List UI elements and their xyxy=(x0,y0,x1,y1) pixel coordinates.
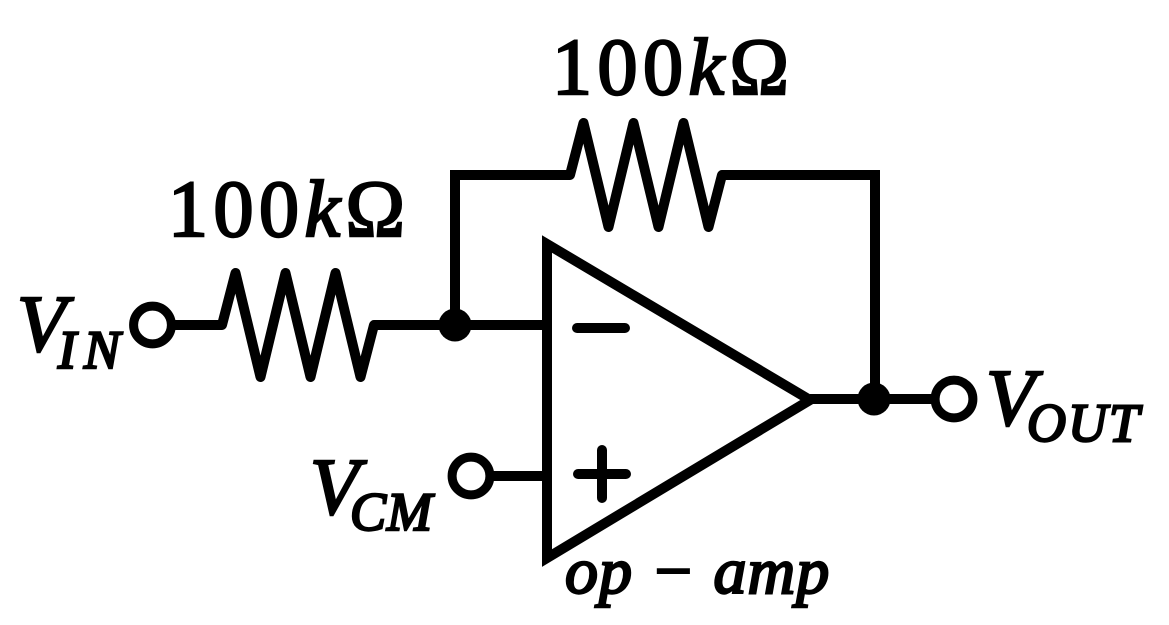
svg-text:op − amp: op − amp xyxy=(565,535,830,608)
V_CM terminal circle xyxy=(452,457,490,495)
svg-text:100kΩ: 100kΩ xyxy=(168,166,410,254)
op-amp inverting input minus sign xyxy=(577,323,625,333)
output node junction dot xyxy=(858,383,891,416)
op-amp non-inverting input plus sign xyxy=(578,450,626,498)
wire W4: feedback top-left horizontal to R2 xyxy=(450,170,570,180)
wire W6: right vertical down to output node xyxy=(870,170,880,399)
resistor R2 100k (feedback resistor) xyxy=(570,123,722,227)
svg-text:CM: CM xyxy=(350,482,435,542)
svg-text:100kΩ: 100kΩ xyxy=(552,24,794,112)
wire W3: node A up to feedback branch xyxy=(450,175,460,332)
V_IN terminal circle xyxy=(134,306,172,344)
svg-text:OUT: OUT xyxy=(1027,393,1143,453)
op-amp U1 triangle xyxy=(547,244,810,558)
wire W7: op-amp output to V_OUT terminal xyxy=(810,394,933,404)
wire W8: V_CM terminal to non-inverting input xyxy=(493,471,548,481)
wire W2: R1 to node A / inverting input xyxy=(374,320,548,330)
node A junction dot (inverting input node) xyxy=(439,309,472,342)
wire W5: R2 to top-right corner xyxy=(722,170,880,180)
svg-text:IN: IN xyxy=(57,320,128,380)
resistor R1 100k (input resistor) xyxy=(222,273,374,377)
V_OUT terminal circle xyxy=(935,380,973,418)
wire W1: V_IN terminal to R1 xyxy=(174,320,222,330)
